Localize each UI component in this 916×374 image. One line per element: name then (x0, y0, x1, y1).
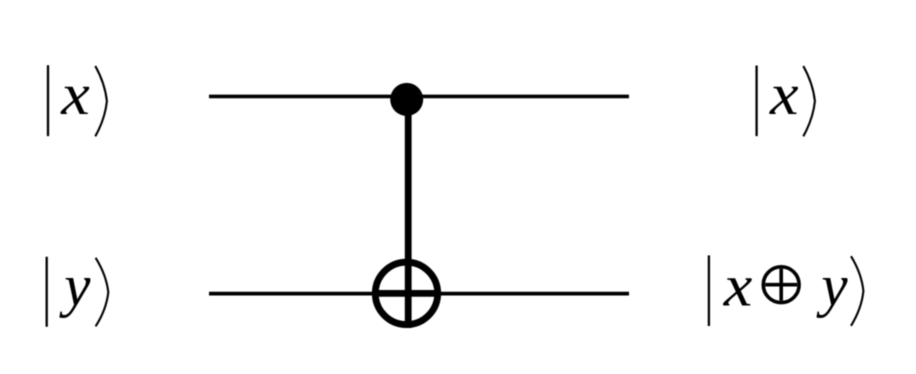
node label |x xor y> (bottom-right output): xor symbol vertical bar (779, 269, 783, 301)
node label |x xor y> (bottom-right output): ket bar (708, 255, 710, 326)
control dot (CNOT control on top wire) (390, 83, 423, 116)
svg-text:x: x (60, 62, 90, 127)
node label |y> (bottom-left input): right angle bracket (96, 258, 109, 327)
node label |x> (top-left input): ket bar (47, 65, 49, 136)
svg-text:x: x (723, 254, 753, 319)
node label |x> (top-right output): ket bar (755, 66, 757, 137)
node label |x xor y> (bottom-right output): xor symbol horizontal bar (765, 283, 797, 287)
node label |x xor y> (bottom-right output): xor symbol circle (763, 267, 799, 303)
wire: bottom qubit line (209, 292, 629, 296)
svg-text:y: y (59, 252, 91, 318)
node label |x> (top-left input): right angle bracket (95, 66, 107, 136)
svg-text:y: y (816, 252, 848, 318)
target XOR circle (CNOT target on bottom wire) (375, 262, 437, 324)
wire: vertical connector control-to-target (405, 99, 412, 328)
node label |y> (bottom-left input): ket bar (46, 257, 48, 327)
wire: top qubit line (209, 95, 629, 99)
node label |x> (top-right output): right angle bracket (803, 66, 815, 136)
svg-text:x: x (769, 62, 799, 127)
node label |x xor y> (bottom-right output): right angle bracket (851, 256, 863, 326)
target cross horizontal bar (373, 290, 440, 297)
